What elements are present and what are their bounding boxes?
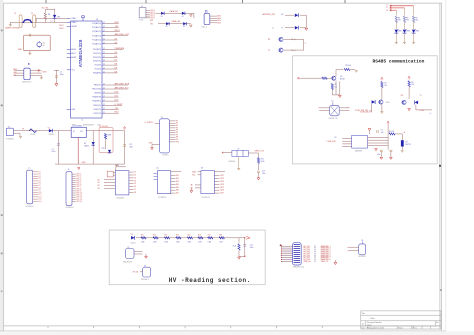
svg-text:MOSI: MOSI [43,71,48,73]
svg-text:IN2: IN2 [38,174,41,176]
svg-text:BC547: BC547 [340,79,345,81]
svg-text:1N4007: 1N4007 [84,145,89,147]
svg-text:DATA_IN2: DATA_IN2 [172,20,180,23]
svg-text:12: 12 [103,72,105,74]
svg-text:O7: O7 [134,189,136,191]
svg-text:Title: Title [362,312,365,315]
svg-text:PD4(T0): PD4(T0) [95,65,102,67]
svg-text:PB2(SS): PB2(SS) [94,93,101,95]
svg-text:P3: P3 [176,125,178,127]
svg-text:VCC1: VCC1 [151,10,155,12]
svg-text:IN2: IN2 [176,178,179,180]
svg-text:HV_CH1: HV_CH1 [304,246,310,248]
svg-text:12: 12 [103,56,105,58]
svg-text:12: 12 [103,68,105,70]
svg-text:R17: R17 [208,234,211,236]
svg-text:O1: O1 [134,172,136,174]
svg-text:HV_CH5: HV_CH5 [304,253,310,255]
svg-text:C14: C14 [250,244,253,246]
svg-text:12: 12 [103,60,105,62]
svg-text:TX: TX [281,27,283,29]
svg-text:RS485 communication: RS485 communication [373,58,425,64]
svg-text:R18: R18 [219,234,222,236]
svg-text:XTAL2: XTAL2 [71,21,76,24]
svg-text:K1: K1 [128,247,130,249]
svg-text:OUT_2: OUT_2 [76,176,81,178]
svg-text:OUT6: OUT6 [220,190,225,192]
svg-text:ARDUINO_OSC: ARDUINO_OSC [115,33,130,36]
svg-text:=: = [318,107,319,109]
svg-text:+5: +5 [305,43,307,45]
svg-text:HV_CH6: HV_CH6 [304,255,310,257]
svg-text:IN8: IN8 [38,187,41,189]
svg-text:U3: U3 [334,137,336,139]
svg-text:A1: A1 [191,187,193,190]
svg-text:RXD: RXD [115,22,120,24]
svg-text:P8: P8 [176,137,178,139]
svg-text:OUT1: OUT1 [220,175,225,177]
svg-text:IN: IN [73,131,75,133]
svg-text:OUT4: OUT4 [220,184,225,186]
svg-text:RESET: RESET [71,26,77,28]
svg-text:VREF_2.5V: VREF_2.5V [255,151,265,153]
svg-text:56.2k: 56.2k [261,161,265,163]
svg-text:OUT_13: OUT_13 [76,199,82,201]
svg-text:BUS: BUS [217,22,220,24]
svg-text:VREF_HV: VREF_HV [304,261,312,263]
svg-text:OUT_4: OUT_4 [76,180,81,182]
svg-text:IN3: IN3 [38,176,41,178]
svg-text:RST1: RST1 [115,30,121,32]
svg-text:1 of 1: 1 of 1 [413,328,417,330]
svg-text:330: 330 [415,20,418,22]
svg-text:HEADER 10X2: HEADER 10X2 [293,265,305,268]
svg-text:12: 12 [103,48,105,50]
svg-text:IN5: IN5 [176,187,179,189]
svg-text:OUT5: OUT5 [220,187,225,189]
svg-text:O2: O2 [134,175,136,177]
svg-text:J2: J2 [141,6,143,8]
svg-text:PC2(ADC2): PC2(ADC2) [92,30,101,33]
svg-text:P6: P6 [314,255,316,257]
svg-text:BUS: BUS [217,16,220,18]
svg-text:F1: F1 [22,129,24,131]
svg-text:PB1(OC1A): PB1(OC1A) [92,88,101,91]
svg-text:12: 12 [103,39,105,41]
svg-text:=: = [347,247,348,249]
svg-text:PB5(SCK): PB5(SCK) [93,105,101,107]
svg-text:D9: D9 [131,234,133,236]
svg-text:P1: P1 [314,246,316,248]
svg-text:P2: P2 [314,248,316,250]
svg-text:P5: P5 [176,130,178,132]
svg-text:PB6(XT1): PB6(XT1) [94,109,102,111]
svg-text:R9: R9 [415,17,417,19]
svg-text:IN3: IN3 [176,181,179,183]
svg-text:ATMEGA328P: ATMEGA328P [83,123,95,126]
svg-text:IN7: IN7 [38,185,41,187]
svg-text:ARDUINO_SCL: ARDUINO_SCL [115,87,130,90]
svg-text:C13: C13 [262,171,265,173]
svg-text:D3: D3 [84,143,86,145]
svg-text:PC3(ADC3): PC3(ADC3) [92,34,101,37]
svg-text:C3: C3 [31,13,33,15]
svg-text:IN4: IN4 [176,184,179,186]
svg-text:PD2(INT0): PD2(INT0) [93,57,102,59]
svg-text:12: 12 [103,112,105,114]
svg-text:VCC1: VCC1 [151,14,155,16]
svg-text:10k: 10k [384,85,387,87]
svg-text:AGND: AGND [71,56,77,59]
svg-text:P9: P9 [314,261,316,263]
svg-text:J4: J4 [161,117,163,119]
svg-text:12: 12 [103,84,105,86]
svg-text:VCC1: VCC1 [151,12,155,14]
svg-text:O8: O8 [134,192,136,194]
svg-text:OUT_8: OUT_8 [76,188,81,190]
svg-text:VCC1: VCC1 [151,17,155,19]
svg-text:ULN2803: ULN2803 [116,198,124,200]
svg-text:IN12: IN12 [38,196,41,198]
svg-text:COM_485: COM_485 [326,141,336,143]
svg-text:P7: P7 [314,257,316,259]
svg-text:PB4(MISO): PB4(MISO) [92,101,101,103]
svg-text:<Title>: <Title> [370,317,375,320]
svg-text:D5: D5 [166,26,168,28]
svg-text:IN1: IN1 [176,175,179,177]
svg-text:RX1: RX1 [150,20,153,22]
svg-text:R15: R15 [187,234,190,236]
svg-text:ATMEGA328: ATMEGA328 [78,39,83,67]
svg-text:CONN-16: CONN-16 [65,207,73,209]
svg-text:100n: 100n [129,147,133,149]
svg-text:ARDUINO_SDA: ARDUINO_SDA [115,83,130,86]
svg-text:OUT_9: OUT_9 [76,190,81,192]
svg-text:R6 120: R6 120 [389,131,394,133]
svg-text:R16: R16 [198,234,201,236]
svg-text:S2: S2 [98,185,100,187]
svg-text:L3: L3 [386,10,388,12]
svg-text:IN6: IN6 [38,183,41,185]
svg-text:R4: R4 [384,83,386,85]
svg-text:R9: R9 [406,17,408,19]
svg-text:S3: S3 [98,188,100,190]
svg-text:P1: P1 [176,120,178,122]
svg-text:P4: P4 [176,127,178,129]
svg-text:12: 12 [103,34,105,36]
svg-text:VCC R1: VCC R1 [42,7,49,9]
svg-text:12: 12 [103,42,105,44]
svg-text:OUT_12: OUT_12 [76,197,82,199]
svg-text:HV_CH8: HV_CH8 [304,259,310,261]
svg-text:VCC1: VCC1 [151,16,155,18]
svg-text:HV_CH4: HV_CH4 [304,252,310,254]
svg-text:OUT_11: OUT_11 [76,195,82,197]
svg-text:OUT3: OUT3 [220,181,225,183]
svg-text:R12: R12 [153,234,156,236]
svg-text:P5: P5 [314,253,316,255]
svg-text:12: 12 [103,88,105,90]
svg-text:<Doc>: <Doc> [367,324,372,327]
svg-text:HV_CH3: HV_CH3 [304,250,310,252]
svg-text:AVCC: AVCC [71,52,76,55]
svg-text:CON10: CON10 [162,155,168,157]
svg-text:100n: 100n [262,173,266,175]
svg-text:OUT2: OUT2 [220,178,225,180]
svg-text:OSC2: OSC2 [59,28,64,30]
svg-text:1N4007: 1N4007 [131,242,136,244]
svg-text:TX1: TX1 [150,23,153,25]
svg-text:HV -Reading section.: HV -Reading section. [169,277,251,284]
svg-text:PB7(XT2): PB7(XT2) [94,113,102,115]
svg-text:C4 75V 1W: C4 75V 1W [99,126,108,128]
svg-text:VREF_2.5: VREF_2.5 [321,261,328,263]
svg-text:330: 330 [406,20,409,22]
svg-text:100n: 100n [60,74,64,76]
svg-text:IN7: IN7 [176,193,179,195]
svg-text:IN13: IN13 [38,199,41,201]
svg-text:CONN-14: CONN-14 [25,206,33,208]
svg-text:P4: P4 [314,252,316,254]
svg-text:IN1: IN1 [38,171,41,173]
svg-text:U7: U7 [237,148,239,150]
svg-text:+5: +5 [430,113,432,115]
svg-text:+5_SUPPLY: +5_SUPPLY [144,122,154,124]
svg-text:OUT_6: OUT_6 [76,184,81,186]
svg-text:1N4007: 1N4007 [49,134,55,136]
svg-text:U6: U6 [201,168,203,170]
svg-text:R11: R11 [141,234,144,236]
svg-text:4N35: 4N35 [386,102,390,104]
svg-text:D6: D6 [183,26,185,28]
svg-text:RELAY-HV: RELAY-HV [123,260,133,263]
svg-text:B1: B1 [362,240,364,242]
svg-text:IN5: IN5 [38,180,41,182]
svg-text:SENSE-1: SENSE-1 [141,279,149,281]
svg-text:R10: R10 [261,159,264,161]
svg-text:R13: R13 [164,234,167,236]
svg-text:O6: O6 [134,186,136,188]
svg-text:OUT: OUT [80,131,83,133]
svg-text:IN9: IN9 [38,190,41,192]
svg-text:O5: O5 [134,183,136,185]
svg-text:1uF: 1uF [381,132,384,134]
svg-text:C9: C9 [381,130,383,132]
svg-text:Monday, April 20, 2020: Monday, April 20, 2020 [367,327,384,330]
svg-text:Rev: Rev [436,322,439,324]
svg-text:HV_CH7: HV_CH7 [304,257,310,259]
svg-text:PC5(ADC5): PC5(ADC5) [92,42,101,45]
svg-text:12: 12 [103,22,105,24]
svg-text:12: 12 [103,52,105,54]
svg-text:PC4(ADC4): PC4(ADC4) [92,39,101,42]
svg-text:AVR-ISP-6: AVR-ISP-6 [22,81,31,84]
svg-text:OUT_10: OUT_10 [76,193,82,195]
svg-text:DATA_IN1: DATA_IN1 [170,10,178,13]
svg-text:12: 12 [103,64,105,66]
svg-text:IN10: IN10 [38,192,41,194]
svg-text:PC0(ADC0): PC0(ADC0) [92,22,101,25]
svg-text:TVS: TVS [101,148,104,150]
svg-text:C2: C2 [14,13,16,15]
svg-text:100n: 100n [250,247,254,249]
svg-text:470u: 470u [52,151,56,153]
svg-text:PB3(MOSI): PB3(MOSI) [92,97,101,99]
svg-text:AREF: AREF [71,48,76,51]
svg-text:CON5: CON5 [139,20,144,22]
svg-text:12: 12 [103,100,105,102]
svg-text:XTAL1: XTAL1 [71,17,76,20]
svg-text:BUS: BUS [217,18,220,20]
svg-text:PD5(T1): PD5(T1) [95,69,102,71]
svg-text:=: = [347,107,348,109]
svg-text:COM_485_TX: COM_485_TX [360,111,373,113]
svg-text:POWER-1: POWER-1 [6,138,14,140]
svg-text:D_BUZZ: D_BUZZ [115,104,124,106]
svg-text:P9: P9 [176,139,178,141]
svg-text:R8 10k: R8 10k [345,65,351,67]
svg-text:PCF8574: PCF8574 [158,197,166,199]
svg-text:OUT_5: OUT_5 [76,182,81,184]
svg-text:TXD: TXD [115,26,120,28]
svg-text:12: 12 [103,96,105,98]
svg-text:RX: RX [281,14,283,16]
svg-text:O3: O3 [134,177,136,179]
svg-text:HV_IN: HV_IN [133,272,139,274]
svg-text:P7: P7 [176,134,178,136]
svg-text:PB0(ICP): PB0(ICP) [94,85,102,87]
svg-text:D1: D1 [51,21,53,23]
svg-text:100n: 100n [377,154,381,156]
svg-text:L2: L2 [386,7,388,9]
svg-text:P3: P3 [314,250,316,252]
svg-text:OUT_3: OUT_3 [76,178,81,180]
svg-text:D2: D2 [48,127,50,129]
svg-text:BUZZER: BUZZER [359,256,367,258]
svg-text:OUT_1: OUT_1 [76,174,81,176]
svg-text:R9: R9 [398,17,400,19]
svg-text:12: 12 [103,108,105,110]
svg-text:OUT_14: OUT_14 [76,201,82,203]
svg-text:12: 12 [103,92,105,94]
svg-text:ARDUINO_RX1: ARDUINO_RX1 [263,13,276,16]
svg-text:P8: P8 [314,259,316,261]
svg-text:IN14: IN14 [38,201,41,203]
svg-text:R7: R7 [335,84,337,86]
svg-text:D4: D4 [182,16,184,18]
svg-text:OSC1: OSC1 [59,25,64,27]
svg-text:RST: RST [13,75,16,77]
svg-text:PD3(INT1): PD3(INT1) [93,61,102,63]
svg-text:10k: 10k [411,84,414,86]
svg-text:PC1(ADC1): PC1(ADC1) [92,26,101,29]
svg-text:P2: P2 [176,123,178,125]
svg-text:330: 330 [398,20,401,22]
svg-text:K2: K2 [332,101,334,103]
svg-text:R14: R14 [176,234,179,236]
svg-text:P6: P6 [176,132,178,134]
svg-text:LM4040: LM4040 [228,161,235,163]
svg-text:OUT7: OUT7 [220,193,225,195]
svg-text:S0: S0 [98,179,100,181]
svg-text:J6: J6 [68,169,70,171]
svg-text:BUS: BUS [217,20,220,22]
svg-text:16MHZ CRYSTAL: 16MHZ CRYSTAL [5,27,20,30]
svg-text:U4: U4 [117,165,119,167]
svg-text:IN11: IN11 [38,194,41,196]
svg-text:MAX485: MAX485 [355,150,362,153]
svg-text:A0: A0 [191,184,193,187]
svg-text:U5: U5 [157,168,159,170]
svg-text:IN4: IN4 [38,178,41,180]
svg-text:PD0(RXD): PD0(RXD) [93,49,101,51]
svg-text:SCL: SCL [192,174,195,176]
svg-text:U1: U1 [81,120,83,122]
svg-text:IN6: IN6 [176,190,179,192]
svg-text:=: = [347,250,348,252]
svg-text:J5: J5 [28,167,30,169]
svg-text:GND: GND [18,49,23,51]
svg-text:12: 12 [103,104,105,106]
svg-text:OUT_7: OUT_7 [76,186,81,188]
svg-text:COM: COM [420,110,425,112]
svg-text:PD1(TXD): PD1(TXD) [93,53,101,55]
svg-text:U2 LM7805: U2 LM7805 [72,125,82,127]
svg-text:R5: R5 [411,82,413,84]
svg-text:RS485 OK: RS485 OK [329,118,339,120]
svg-text:S1: S1 [98,182,100,184]
svg-text:O4: O4 [134,180,136,182]
svg-text:SM712: SM712 [405,144,410,146]
svg-text:P10: P10 [176,141,179,143]
svg-text:56.2k: 56.2k [233,246,237,248]
svg-text:PCF8574: PCF8574 [202,197,210,199]
svg-text:12: 12 [103,30,105,32]
svg-text:PD6(AIN0): PD6(AIN0) [93,72,102,75]
svg-text:D3: D3 [161,16,163,18]
svg-text:X1: X1 [8,126,10,128]
svg-text:U1: U1 [96,19,98,21]
svg-text:10k: 10k [48,14,51,16]
svg-text:12: 12 [103,26,105,28]
svg-text:HV_CH2: HV_CH2 [304,248,310,250]
svg-text:L1: L1 [386,4,388,6]
svg-text:ONEWIRE: ONEWIRE [115,48,125,50]
svg-text:K3: K3 [144,265,146,267]
svg-text:RJ11-6: RJ11-6 [201,27,207,29]
